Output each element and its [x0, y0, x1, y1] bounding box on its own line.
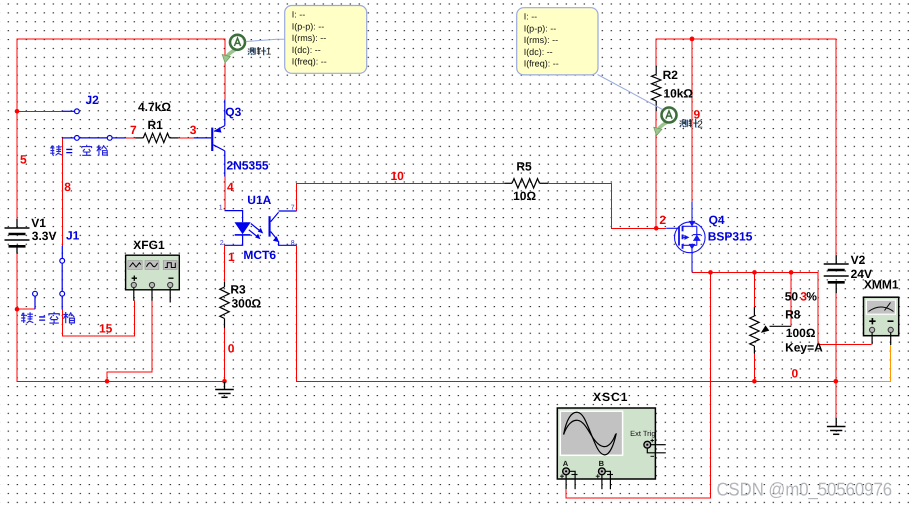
svg-text:4.7kΩ: 4.7kΩ [138, 100, 171, 114]
wire top-left horizontal V1+ to Q3 emitter corner [17, 39, 225, 219]
svg-text:%: % [806, 290, 817, 304]
svg-text:I(p-p): --: I(p-p): -- [292, 21, 325, 31]
svg-text:R8: R8 [785, 307, 801, 321]
svg-text:5: 5 [20, 153, 27, 167]
resistor R1 [135, 133, 178, 142]
svg-text:3.3V: 3.3V [32, 229, 57, 243]
wire R8 wiper branch [790, 272, 792, 326]
svg-text:4: 4 [227, 180, 234, 194]
wire R5 right to Q4 gate corner node2 [548, 183, 666, 228]
wire R8 top branch [754, 272, 756, 307]
svg-text:7: 7 [130, 123, 137, 137]
svg-text:I(dc): --: I(dc): -- [292, 45, 321, 55]
svg-text:50: 50 [785, 290, 799, 304]
switch J2 [62, 109, 126, 140]
svg-text:XSC1: XSC1 [593, 390, 628, 404]
svg-text:=: = [66, 144, 73, 158]
wire XFG1 common return [107, 301, 152, 382]
optocoupler U1A [225, 211, 297, 246]
svg-text:100Ω: 100Ω [786, 326, 816, 340]
wire opto emitter node to long bottom rail [297, 245, 836, 381]
svg-text:10: 10 [391, 169, 405, 183]
ground right [827, 418, 846, 435]
svg-text:I(rms): --: I(rms): -- [524, 35, 558, 45]
resistor R5 [505, 179, 549, 188]
ground left [215, 382, 234, 397]
svg-text:R5: R5 [516, 159, 532, 173]
wire left rail V1- down to bottom [17, 254, 225, 381]
svg-text:Key=A: Key=A [785, 340, 823, 354]
svg-text:J2: J2 [86, 93, 100, 107]
svg-text:XFG1: XFG1 [133, 238, 165, 252]
svg-text:I(rms): --: I(rms): -- [292, 33, 326, 43]
svg-text:V2: V2 [851, 253, 866, 267]
wire node5 stub to J2 open contact [17, 110, 62, 112]
svg-text:10Ω: 10Ω [513, 189, 536, 203]
svg-text:1: 1 [228, 250, 235, 264]
svg-text:10kΩ: 10kΩ [663, 87, 693, 101]
svg-text:1: 1 [266, 47, 272, 58]
svg-text:3: 3 [190, 123, 197, 137]
label key=space 1 [50, 145, 107, 156]
svg-text:BSP315: BSP315 [708, 230, 753, 244]
svg-text:2: 2 [697, 119, 703, 130]
mosfet Q4 [666, 202, 705, 272]
battery V2 [824, 255, 849, 293]
svg-text:8: 8 [64, 180, 71, 194]
wire R2 bottom through probe2 to gate node [655, 111, 657, 229]
probe info box 2 leader [598, 75, 663, 110]
wire top-right horizontal R2 top to V2+ [656, 39, 836, 255]
current probe 2 [654, 108, 677, 136]
optocoupler U1A light arrows [251, 224, 261, 232]
wire R3 bottom to ground node0 [224, 328, 226, 382]
wire R8 bottom to bottom rail [753, 354, 755, 382]
svg-text:15: 15 [99, 322, 113, 336]
label key=space 2 [21, 312, 74, 323]
probe info box 2 [517, 8, 598, 75]
probe info box 1 leader [246, 39, 285, 41]
svg-text:Ext Trig: Ext Trig [630, 429, 655, 438]
wire node8 vertical J2 row to J1 [61, 138, 63, 246]
svg-text:2: 2 [659, 213, 666, 227]
svg-text:A: A [563, 459, 569, 468]
potentiometer R8 [750, 307, 791, 354]
battery V1 [5, 219, 30, 254]
instrument XMM1 multimeter [864, 297, 899, 345]
wire opto pin7 up and node10 to R5 [297, 183, 505, 211]
wire Q4 source rail to R8 top and XMM+ branch [692, 272, 872, 344]
svg-text:CSDN @m0_50560976: CSDN @m0_50560976 [717, 479, 893, 500]
wire J1 alt throw stub to rail [17, 308, 35, 310]
wire opto pin2 to R3 node1 [224, 245, 226, 282]
resistor R3 [220, 282, 229, 328]
svg-text:Q3: Q3 [225, 105, 241, 119]
svg-text:XMM1: XMM1 [864, 278, 899, 292]
wire J1 bottom to XFG1 plus node15 [62, 301, 134, 336]
wire Q3 emitter to opto pin1 node4 [224, 177, 226, 211]
wire red part of R1 row right node3 [178, 137, 193, 139]
svg-text:2: 2 [220, 240, 224, 247]
svg-text:U1A: U1A [247, 193, 271, 207]
svg-text:R1: R1 [148, 118, 164, 132]
svg-text:8: 8 [291, 240, 295, 247]
switch J1 [33, 246, 65, 310]
svg-text:B: B [599, 459, 605, 468]
svg-text:I(p-p): --: I(p-p): -- [524, 23, 557, 33]
wire bottom junction to ground right [835, 381, 837, 418]
svg-text:R2: R2 [663, 68, 679, 82]
svg-text:I(dc): --: I(dc): -- [524, 47, 553, 57]
optocoupler U1A phototransistor [269, 216, 271, 236]
svg-text:1: 1 [219, 204, 223, 211]
svg-text:I(freq): --: I(freq): -- [292, 57, 327, 67]
svg-text:I: --: I: -- [524, 12, 538, 22]
instrument XSC1 oscilloscope [557, 408, 666, 489]
svg-text:I(freq): --: I(freq): -- [524, 59, 559, 69]
svg-text:0: 0 [228, 341, 235, 355]
svg-text:=: = [39, 311, 46, 325]
svg-text:J1: J1 [66, 229, 80, 243]
svg-text:300Ω: 300Ω [232, 297, 262, 311]
resistor R2 [652, 66, 661, 111]
probe info box 1 [285, 6, 367, 74]
svg-text:2N5355: 2N5355 [227, 159, 269, 173]
wire red part of R1 row left [125, 137, 135, 139]
svg-text:R3: R3 [230, 283, 246, 297]
wire scope channel A loop to source node [566, 272, 710, 497]
wire Q4 drain node9 [691, 39, 693, 202]
potentiometer R8 wiper arrow [770, 325, 792, 327]
svg-text:0: 0 [792, 367, 799, 381]
label probe1 name [248, 47, 266, 55]
svg-text:7: 7 [291, 204, 295, 211]
current probe 1 [222, 35, 245, 63]
wire orange XMM minus return [836, 345, 891, 381]
label probe2 name [680, 119, 699, 128]
svg-text:MCT6: MCT6 [243, 248, 276, 262]
transistor Q3 [194, 100, 225, 177]
svg-text:Q4: Q4 [709, 213, 725, 227]
instrument XFG1 [126, 255, 180, 302]
switch J1 alternate throw stub [33, 291, 38, 296]
wire V2- down to bottom junction [835, 293, 837, 381]
svg-text:I: --: I: -- [292, 10, 306, 20]
